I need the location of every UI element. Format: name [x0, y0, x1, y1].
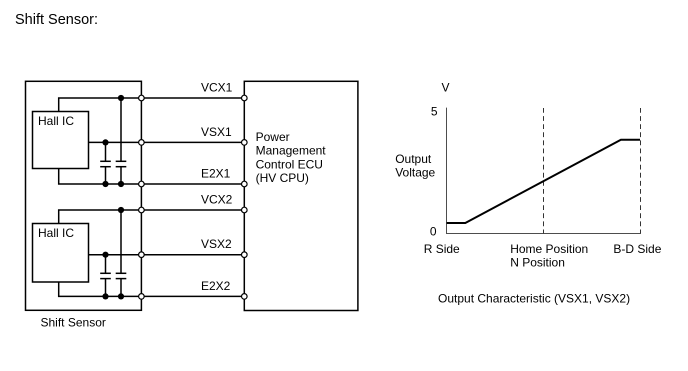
- svg-text:E2X2: E2X2: [201, 279, 231, 293]
- svg-text:Shift Sensor: Shift Sensor: [41, 316, 106, 330]
- svg-text:Home Position: Home Position: [510, 242, 588, 256]
- svg-text:Voltage: Voltage: [395, 165, 435, 179]
- svg-text:VCX1: VCX1: [201, 80, 233, 94]
- svg-text:B-D Side: B-D Side: [613, 242, 661, 256]
- svg-text:N Position: N Position: [510, 256, 565, 270]
- svg-text:VSX1: VSX1: [201, 125, 232, 139]
- svg-text:VSX2: VSX2: [201, 237, 232, 251]
- svg-text:E2X1: E2X1: [201, 166, 231, 180]
- svg-text:Power: Power: [256, 130, 290, 144]
- svg-text:R Side: R Side: [424, 242, 460, 256]
- svg-text:(HV CPU): (HV CPU): [256, 171, 309, 185]
- svg-text:Hall IC: Hall IC: [38, 226, 74, 240]
- svg-text:VCX2: VCX2: [201, 192, 233, 206]
- svg-text:Output: Output: [395, 152, 432, 166]
- svg-text:Management: Management: [256, 144, 327, 158]
- svg-text:Control ECU: Control ECU: [256, 157, 323, 171]
- svg-text:V: V: [441, 80, 449, 94]
- svg-text:Shift Sensor:: Shift Sensor:: [15, 12, 98, 28]
- svg-text:0: 0: [430, 225, 437, 239]
- svg-text:Output Characteristic (VSX1, V: Output Characteristic (VSX1, VSX2): [438, 292, 630, 306]
- svg-text:Hall IC: Hall IC: [38, 114, 74, 128]
- svg-text:5: 5: [431, 105, 438, 119]
